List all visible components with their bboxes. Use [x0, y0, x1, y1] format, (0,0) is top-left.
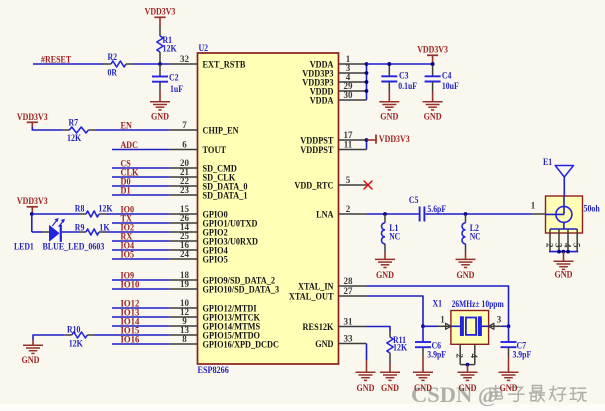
svg-text:BLUE_LED_0603: BLUE_LED_0603 — [43, 243, 105, 253]
svg-text:0R: 0R — [108, 69, 118, 79]
svg-text:24: 24 — [180, 249, 190, 259]
svg-text:GPIO5: GPIO5 — [203, 254, 228, 265]
svg-text:GPIO10/SD_DATA_3: GPIO10/SD_DATA_3 — [203, 284, 280, 295]
svg-text:GND: GND — [376, 271, 394, 281]
svg-text:5.6pF: 5.6pF — [427, 205, 446, 215]
svg-text:2: 2 — [545, 243, 555, 248]
svg-text:1K: 1K — [99, 223, 110, 233]
svg-text:28: 28 — [344, 276, 354, 286]
svg-text:R10: R10 — [67, 325, 81, 335]
svg-text:CHIP_EN: CHIP_EN — [203, 125, 239, 136]
svg-text:R7: R7 — [69, 118, 79, 128]
svg-text:X1: X1 — [433, 300, 443, 310]
svg-text:3: 3 — [554, 243, 564, 248]
svg-text:R8: R8 — [75, 205, 85, 215]
svg-text:GND: GND — [22, 356, 40, 366]
svg-text:VDDPST: VDDPST — [300, 145, 334, 156]
svg-text:10uF: 10uF — [442, 82, 459, 92]
svg-text:11: 11 — [344, 139, 353, 149]
svg-text:XTAL_OUT: XTAL_OUT — [289, 291, 334, 302]
svg-text:32: 32 — [180, 54, 190, 64]
svg-text:VDD3V3: VDD3V3 — [17, 113, 48, 123]
svg-text:NC: NC — [470, 232, 481, 242]
svg-text:1: 1 — [440, 314, 445, 324]
svg-text:6: 6 — [182, 139, 187, 149]
svg-text:GND: GND — [151, 112, 169, 122]
svg-text:LNA: LNA — [316, 209, 333, 220]
svg-text:31: 31 — [344, 316, 354, 326]
svg-text:5: 5 — [572, 243, 582, 248]
svg-text:ESP8266: ESP8266 — [198, 366, 230, 376]
svg-text:27: 27 — [344, 286, 354, 296]
svg-text:26MHz± 10ppm: 26MHz± 10ppm — [452, 300, 504, 310]
svg-text:VDDA: VDDA — [310, 95, 334, 106]
svg-text:12K: 12K — [163, 45, 178, 55]
svg-text:17: 17 — [344, 130, 354, 140]
svg-text:23: 23 — [180, 185, 190, 195]
svg-text:GPIO16/XPD_DCDC: GPIO16/XPD_DCDC — [203, 339, 279, 350]
svg-text:RES12K: RES12K — [303, 322, 334, 333]
svg-text:LED1: LED1 — [14, 243, 34, 253]
svg-text:GND: GND — [555, 271, 573, 281]
svg-text:1uF: 1uF — [170, 85, 183, 95]
svg-text:33: 33 — [344, 333, 354, 343]
svg-text:D1: D1 — [121, 186, 131, 196]
svg-text:GND: GND — [380, 112, 398, 122]
svg-text:SD_DATA_1: SD_DATA_1 — [203, 190, 248, 201]
svg-text:IO5: IO5 — [121, 250, 135, 260]
svg-text:1: 1 — [531, 201, 536, 211]
svg-text:3.9pF: 3.9pF — [513, 351, 532, 361]
svg-text:IO10: IO10 — [121, 280, 140, 290]
svg-text:R2: R2 — [108, 53, 118, 63]
svg-text:VDD_RTC: VDD_RTC — [294, 180, 333, 191]
svg-text:VDD3V3: VDD3V3 — [379, 135, 410, 145]
svg-text:12K: 12K — [67, 134, 82, 144]
svg-text:50oh: 50oh — [584, 205, 601, 215]
svg-text:3: 3 — [497, 314, 502, 324]
svg-text:30: 30 — [344, 90, 354, 100]
svg-text:ADC: ADC — [121, 141, 138, 151]
svg-text:TOUT: TOUT — [203, 145, 227, 156]
svg-text:GND: GND — [457, 271, 475, 281]
svg-text:C3: C3 — [399, 71, 409, 81]
svg-text:GND: GND — [424, 112, 442, 122]
svg-text:GND: GND — [357, 384, 375, 394]
svg-text:0.1uF: 0.1uF — [398, 82, 417, 92]
svg-text:VDD3V3: VDD3V3 — [145, 8, 176, 18]
svg-text:GND: GND — [381, 384, 399, 394]
svg-text:IO16: IO16 — [121, 335, 140, 345]
svg-text:3.9pF: 3.9pF — [427, 351, 446, 361]
svg-text:19: 19 — [180, 279, 190, 289]
svg-text:EXT_RSTB: EXT_RSTB — [203, 59, 246, 70]
svg-text:12K: 12K — [393, 344, 408, 354]
svg-text:2: 2 — [346, 204, 351, 214]
svg-text:C4: C4 — [442, 71, 452, 81]
svg-text:U2: U2 — [199, 44, 209, 54]
svg-text:C2: C2 — [169, 74, 179, 84]
svg-text:7: 7 — [182, 120, 187, 130]
svg-text:E1: E1 — [543, 158, 552, 168]
svg-text:C5: C5 — [409, 196, 419, 206]
svg-text:12K: 12K — [69, 340, 84, 350]
svg-text:NC: NC — [389, 232, 400, 242]
svg-text:R9: R9 — [75, 223, 85, 233]
svg-text:5: 5 — [346, 175, 351, 185]
svg-text:12K: 12K — [98, 205, 113, 215]
svg-text:4: 4 — [469, 354, 479, 359]
svg-text:VDD3V3: VDD3V3 — [17, 197, 48, 207]
svg-text:8: 8 — [182, 334, 187, 344]
svg-text:2: 2 — [455, 354, 465, 359]
svg-text:4: 4 — [563, 243, 573, 248]
svg-text:CSDN @: CSDN @ — [411, 382, 499, 408]
svg-text:VDD3V3: VDD3V3 — [417, 46, 448, 56]
svg-text:GND: GND — [315, 339, 333, 350]
